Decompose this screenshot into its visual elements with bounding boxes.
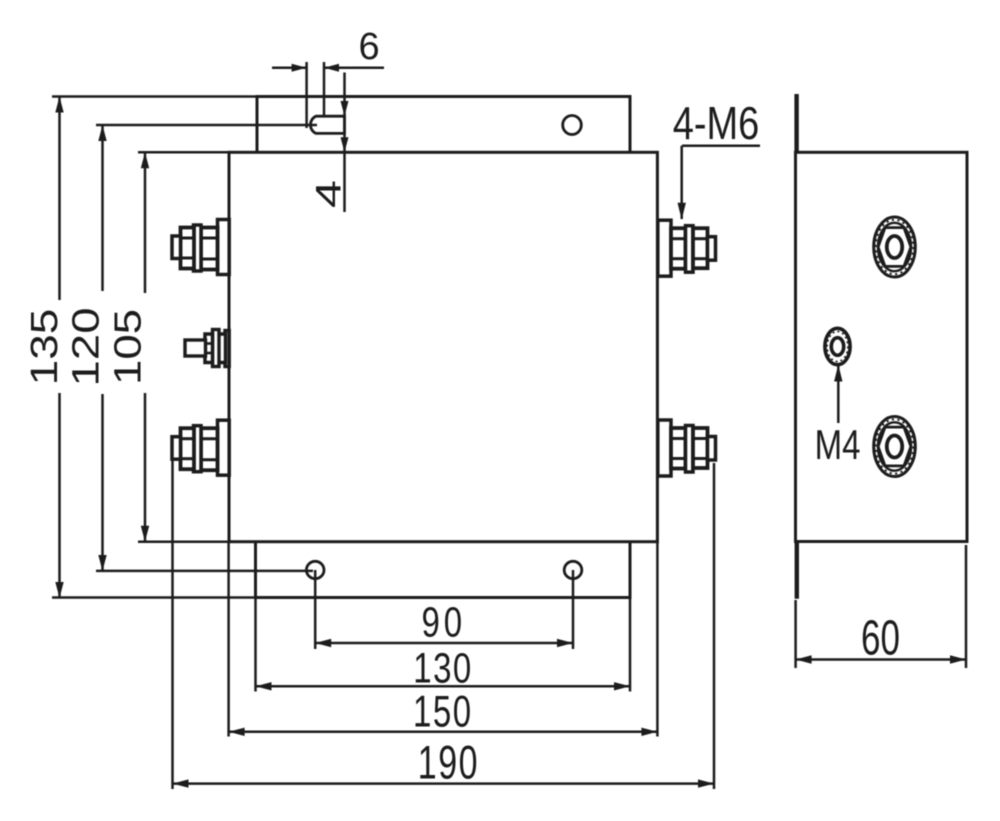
top mounting flange plate (front view) [257,97,630,154]
dimension 135 line+arrows+extensions [58,97,61,301]
dimension 4 line+arrows [343,73,346,213]
ground terminal middle-left [225,331,229,367]
flange slot 6mm rounded-end [310,116,344,133]
terminal stud top-right (line) [658,220,671,276]
terminal stud bottom-right (load) [658,420,671,476]
svg-text:60: 60 [861,611,900,666]
svg-text:4: 4 [310,180,349,208]
svg-text:105: 105 [106,309,149,385]
dimension 6 (slot width) lines+arrows [272,67,307,70]
terminal stud top-left (line) [218,220,230,275]
svg-text:120: 120 [65,307,107,386]
M6 bolt head bottom (side view) [874,417,916,477]
svg-text:M4: M4 [815,421,861,467]
top flange hole [563,116,582,135]
terminal stud bottom-left (load) [218,420,230,475]
svg-text:6: 6 [358,26,379,68]
svg-text:190: 190 [418,736,479,789]
bottom flange hole right [564,561,582,578]
svg-text:4-M6: 4-M6 [673,98,760,149]
label M4 leader [837,366,840,423]
side view flange tab top edge-on [794,94,798,152]
svg-text:90: 90 [421,599,466,647]
bottom mounting flange plate (front view) [256,541,631,598]
M4 ground screw (side view) [825,328,850,364]
dimension 60 line+arrows+extensions [794,600,797,668]
bottom flange hole left [306,561,324,578]
dimension 105 line+arrows+extensions [144,152,147,293]
dimension 90 line+arrows+extensions [314,570,317,649]
M6 bolt head top (side view) [874,217,916,277]
svg-text:130: 130 [413,644,473,692]
label 4-M6 leader [682,144,760,147]
side view body [796,152,968,541]
dimension 150 line+arrows+extensions [227,542,230,737]
svg-text:150: 150 [413,688,473,737]
dimension 130 line+arrows+extensions [254,598,257,692]
main filter body (front view) [229,152,657,541]
dimension 120 line+arrows+extensions [101,125,104,291]
dimension 190 line+arrows+extensions [171,460,174,789]
side view flange tab bottom edge-on [795,542,799,599]
svg-text:135: 135 [23,309,65,386]
